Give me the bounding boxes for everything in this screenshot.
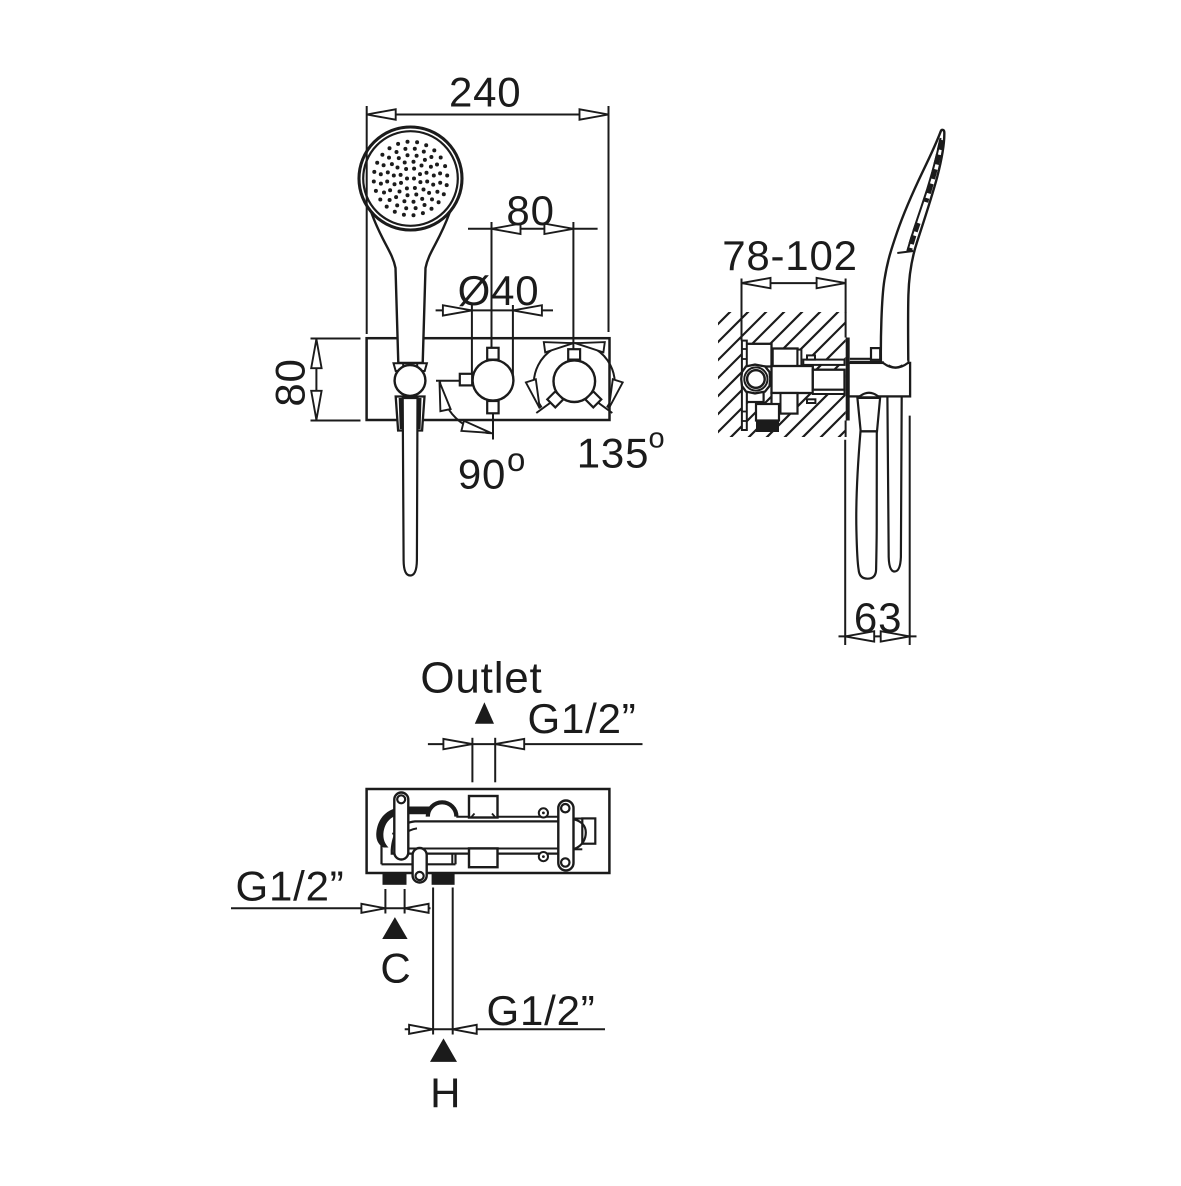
svg-text:78-102: 78-102 [722,232,858,279]
svg-text:90: 90 [458,451,506,498]
svg-text:o: o [649,423,665,455]
svg-text:80: 80 [266,358,313,406]
svg-text:135: 135 [577,430,649,477]
svg-text:o: o [507,441,525,478]
svg-text:G1/2”: G1/2” [486,987,595,1034]
svg-text:80: 80 [506,187,554,234]
svg-text:G1/2”: G1/2” [235,863,344,910]
svg-text:H: H [430,1070,461,1117]
svg-text:240: 240 [449,69,521,116]
svg-text:G1/2”: G1/2” [527,695,636,742]
svg-text:C: C [380,944,411,991]
svg-text:Ø40: Ø40 [458,267,540,314]
svg-text:Outlet: Outlet [420,654,542,703]
svg-text:63: 63 [854,594,902,641]
